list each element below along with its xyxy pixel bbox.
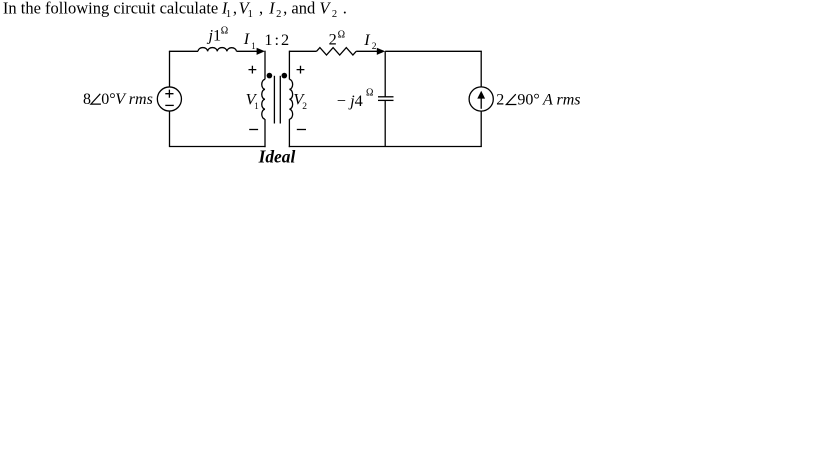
svg-text:I: I [243, 29, 251, 48]
svg-text:A rms: A rms [542, 92, 581, 109]
capacitor -j4 bottom plate [378, 99, 394, 101]
current arrow head I1 [257, 48, 265, 55]
transformer dot primary [267, 73, 273, 79]
svg-text:V rms: V rms [115, 91, 153, 108]
svg-text:90°: 90° [517, 92, 539, 109]
transformer core bar left [273, 76, 275, 124]
winding: transformer secondary coil [289, 79, 292, 119]
wire: capacitor branch lower [384, 100, 386, 146]
polarity plus sign secondary [297, 66, 305, 74]
polarity plus sign primary [249, 66, 257, 74]
current source arrow shaft [480, 98, 482, 109]
svg-text:2: 2 [302, 102, 307, 112]
svg-text:8: 8 [83, 91, 91, 108]
svg-text:Ω: Ω [338, 29, 345, 40]
svg-text:− j4: − j4 [337, 91, 363, 110]
svg-text:1: 1 [251, 41, 256, 51]
wire: transformer secondary top lead [288, 51, 290, 80]
svg-text:In the following circuit calcu: In the following circuit calculate I1 ,V… [3, 0, 347, 20]
winding: transformer primary coil [262, 79, 265, 119]
svg-text:j1: j1 [207, 25, 222, 44]
wire: capacitor branch upper [384, 51, 386, 97]
voltage source circle 8 angle 0 V rms [157, 87, 181, 111]
wire: resistor to capacitor node (I2 arrow shaft) [356, 50, 379, 52]
wire: bottom of primary loop [169, 146, 266, 148]
angle symbol of source value [91, 94, 101, 104]
transformer core bar right [279, 76, 281, 124]
wire: transformer primary bottom lead [264, 119, 266, 147]
polarity minus sign primary [249, 129, 258, 131]
svg-text:0°: 0° [101, 91, 115, 108]
wire: right vertical lower segment [480, 111, 482, 147]
svg-text:Ω: Ω [221, 25, 228, 36]
resistor 2 ohm zigzag [317, 48, 357, 55]
wire: transformer secondary bottom lead [288, 119, 290, 147]
inductor j1 ohm [198, 48, 237, 52]
svg-text:2: 2 [372, 42, 377, 52]
polarity minus sign secondary [297, 129, 306, 131]
current arrow head I2 [377, 48, 385, 55]
wire: inductor to transformer primary (I1 arrow shaft) [237, 50, 260, 52]
svg-text:2: 2 [329, 30, 337, 49]
svg-text:Ideal: Ideal [258, 147, 296, 167]
transformer dot secondary [282, 73, 288, 79]
wire: secondary top to resistor [289, 50, 316, 52]
svg-text:2: 2 [496, 92, 504, 109]
wire: left vertical lower segment [169, 111, 171, 147]
voltage source minus sign [165, 104, 174, 106]
svg-text:1: 1 [254, 101, 258, 111]
current source circle 2 angle 90 A rms [469, 87, 493, 111]
wire: top-left to inductor [169, 50, 198, 52]
current source arrow head [477, 91, 485, 99]
svg-text:1:2: 1:2 [264, 30, 291, 49]
angle symbol of current source value [506, 94, 516, 104]
svg-text:Ω: Ω [366, 88, 373, 99]
wire: bottom of secondary loop [289, 146, 482, 148]
wire: transformer primary top lead [264, 51, 266, 80]
voltage source plus sign [165, 90, 173, 98]
wire: left vertical upper segment [169, 51, 171, 87]
capacitor -j4 top plate [378, 96, 394, 98]
svg-text:I: I [363, 30, 371, 49]
wire: capacitor node to right vertical [385, 50, 482, 52]
wire: right vertical upper segment [480, 51, 482, 87]
